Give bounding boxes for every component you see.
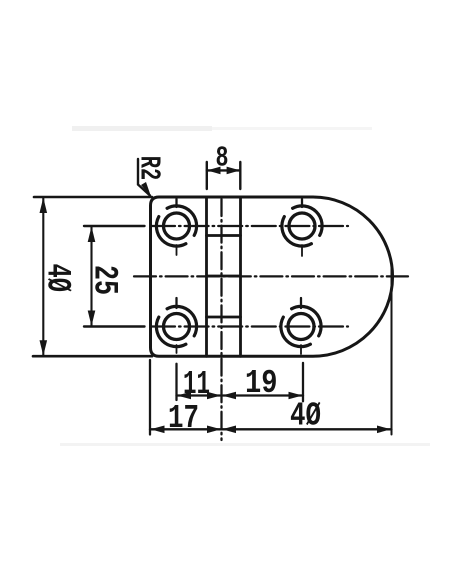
arrow 17 left bbox=[151, 426, 165, 434]
R2 leader arrowhead bbox=[141, 182, 151, 197]
hole top-right vertical centerline dashes bbox=[301, 199, 303, 207]
hole top-left vertical centerline dashes bbox=[175, 199, 177, 207]
knuckle strip left edge bbox=[205, 197, 208, 356]
40 dimension line (left) bbox=[42, 197, 44, 356]
hole top-left countersink arc bbox=[156, 217, 186, 247]
hinge body outline bbox=[151, 197, 393, 356]
arrow 25 top bbox=[88, 227, 96, 243]
arrow 40-left top bbox=[40, 198, 48, 214]
arrow 40-left bottom bbox=[40, 340, 48, 356]
arrow 25 bottom bbox=[88, 311, 96, 327]
bottom ext line: part left edge bbox=[149, 360, 151, 435]
pin vertical centerline bbox=[220, 199, 222, 440]
arrow 11 left bbox=[177, 392, 191, 400]
hole bottom-right countersink arc bbox=[281, 317, 311, 347]
arrow 11 right / 19 left pair at pin bbox=[207, 392, 221, 400]
arrow 40 right bbox=[377, 426, 391, 434]
hole bottom-right vertical centerline dashes bbox=[300, 298, 302, 308]
bottom ext line: right hole column bbox=[302, 363, 304, 401]
knuckle division 1 bbox=[207, 234, 241, 237]
25 extension line top bbox=[84, 225, 145, 227]
arrow 17 right / 40 left pair at pin bbox=[207, 426, 221, 434]
svg-text:8: 8 bbox=[216, 142, 229, 175]
top edge extension line (40 dim) bbox=[34, 196, 152, 199]
hole top-right inner circle bbox=[289, 213, 315, 239]
svg-text:19: 19 bbox=[245, 365, 278, 402]
arrow 8 left bbox=[207, 167, 221, 175]
faint scan smudges bbox=[60, 443, 430, 446]
arrow 19 right bbox=[289, 392, 303, 400]
8 dim extension line right bbox=[239, 162, 241, 189]
middle centerline bbox=[134, 275, 408, 277]
bottom edge extension line (40 dim) bbox=[33, 355, 152, 358]
svg-text:4Ø: 4Ø bbox=[38, 264, 76, 292]
R2 leader line bbox=[138, 159, 150, 196]
hole bottom-left vertical centerline dashes bbox=[175, 298, 177, 308]
svg-text:17: 17 bbox=[168, 400, 199, 437]
hole bottom-left inner circle bbox=[164, 314, 190, 340]
8 dim extension line left bbox=[206, 162, 208, 189]
svg-text:4Ø: 4Ø bbox=[290, 398, 321, 435]
dim line 40 bbox=[222, 428, 392, 430]
8 dimension line bbox=[207, 169, 241, 171]
knuckle division 3 bbox=[207, 316, 241, 319]
knuckle strip right edge bbox=[239, 197, 242, 356]
dim line 19 bbox=[222, 394, 304, 396]
25 extension line bottom bbox=[84, 325, 145, 327]
svg-text:25: 25 bbox=[85, 265, 123, 295]
25 dimension line (left) bbox=[90, 226, 92, 327]
hole top-right countersink arc bbox=[282, 217, 312, 247]
dim line 17 bbox=[150, 428, 222, 430]
svg-text:11: 11 bbox=[183, 366, 210, 403]
hole bottom-left countersink arc bbox=[156, 317, 186, 347]
knuckle division 2 bbox=[207, 275, 241, 278]
arrow 8 right bbox=[227, 167, 241, 175]
hole bottom-right inner circle bbox=[288, 314, 314, 340]
bottom ext line: right end bbox=[391, 266, 393, 435]
svg-text:R2: R2 bbox=[133, 156, 166, 181]
bottom ext line: left hole column bbox=[175, 364, 177, 400]
top hole row centerline bbox=[151, 225, 348, 227]
dim line 11 bbox=[177, 394, 222, 396]
hole top-left inner circle bbox=[164, 213, 190, 239]
bottom hole row centerline bbox=[151, 325, 348, 327]
